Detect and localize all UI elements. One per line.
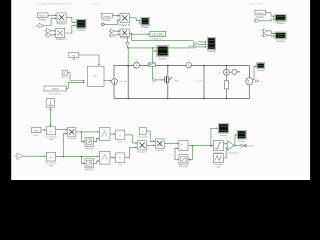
port arrow v [256,80,263,83]
comparator triangle [227,141,234,150]
block B2 [100,151,111,164]
black letterbox background [0,0,320,180]
port circle C2 [101,23,104,26]
label Product q [56,38,67,41]
svg-text:i dc .05: i dc .05 [119,81,127,83]
label Pmean [142,27,150,29]
mosfet switch PM [163,65,172,100]
triangular wave block [213,154,223,163]
memory block Memory1 [85,137,93,146]
svg-text:fa/dt: fa/dt [49,164,54,167]
product block Product4 [138,141,147,150]
voltmeter Vdc branch [224,65,230,81]
label mosfet [175,80,178,82]
breaker switch [148,63,155,66]
from tag Product (top-left) [38,13,49,18]
scope Scope7 [218,123,228,133]
product block Product dc [57,13,66,22]
ammeter Idc1 [134,62,140,68]
svg-text:PG: PG [94,76,98,78]
svg-text:Constant3: Constant3 [137,135,148,138]
wire add out [188,145,213,147]
label idc1 [135,60,139,62]
gain triangle T2b [109,33,116,37]
gain block G3 [116,153,125,163]
label Constant3 [137,135,148,138]
scope Scope1 [157,46,169,57]
wire product1 to Pmean display [130,18,141,24]
wires T2 to product2 [115,30,120,35]
wires B1a B1b to product q [52,30,56,36]
current source Idc [112,79,118,85]
label numeric display [152,38,164,40]
svg-text:Pulse: Pulse [34,130,40,132]
svg-text:Discrete: Discrete [61,76,70,79]
svg-text:Discrete PLL: Discrete PLL [49,92,62,95]
label Scope1 [159,59,168,61]
svg-text:Comparator: Comparator [228,151,239,154]
svg-text:Product d: Product d [120,37,131,40]
wires T4 to scope3 [268,31,275,37]
svg-text:Product: Product [257,12,264,15]
wire product2 to numeric display [129,33,149,35]
svg-text:Product: Product [39,19,47,22]
block Discrete PLL [44,86,66,91]
svg-text:Memory: Memory [85,147,94,150]
wire product dc to scope4 [66,17,76,23]
scope Scope5 [207,37,215,49]
wire from tag2 to product1 [112,14,120,16]
wire Fg to subsystem top [79,55,100,66]
feedback wire to memory6 [188,146,192,161]
label Product dc [57,23,68,26]
svg-text:Scope: Scope [239,141,246,143]
product block Product1 [120,14,130,23]
gain triangle T4b [262,33,268,37]
svg-text:Scope5: Scope5 [207,51,216,53]
gate drive triangle [153,78,163,81]
label under from tag 3 [256,17,264,19]
gain block G2 [116,130,125,140]
gain triangle down under product2 [125,36,129,48]
resistor R [225,81,229,100]
gain triangle T2a [109,29,116,32]
mux triangle c [194,45,198,48]
wire B2 to gain3 [110,157,115,159]
label Product3 [67,137,77,140]
source triangle 1 [15,153,23,160]
svg-text:PulseG: PulseG [256,17,264,19]
scope Scope8 [237,130,246,139]
wire branch down from product2 to mux line [131,34,132,41]
memory block Memory6 [179,155,188,165]
white model canvas [11,0,310,180]
wire memory1 to block B1 [93,137,99,141]
numeric display G-M [150,31,165,36]
svg-text:Scope2: Scope2 [277,23,286,25]
add block [179,141,188,151]
svg-text:G-M2: G-M2 [248,146,254,148]
label + dc [216,72,221,74]
label G3 [118,164,123,166]
label PLL [49,92,62,95]
block f(u) above chain [46,99,54,107]
wire circuit left rail [113,66,115,99]
label Scope4 [77,30,86,32]
wire Fg1 to discretized1 [41,129,46,131]
svg-text:Product4: Product4 [138,151,148,154]
constant block Constant3 [139,127,146,134]
svg-text:fa/dt: fa/dt [49,138,54,141]
from tag Product1 (top-middle) [101,13,112,18]
product block Product5 [155,139,164,148]
wire triangular to comparator [223,147,227,158]
gain triangle T4a [262,29,268,33]
svg-text:Product3: Product3 [67,137,77,140]
svg-text:Memory6: Memory6 [179,165,189,168]
wire branch to memory2 [81,157,84,165]
goto port G-M2 [241,144,254,148]
capacitor branch [127,65,129,100]
wire G1 to subsystem [67,73,84,82]
wire product3 to block B1 [76,131,99,133]
label Scope6 [257,70,265,72]
from tag Fg [69,52,79,57]
mux triangle b [194,42,198,45]
label Discretized1 [46,136,58,141]
svg-text:Product: Product [39,15,47,18]
svg-text:Product: Product [103,15,111,18]
gain triangle T3 [254,19,260,23]
from tag Fg1 [32,127,42,132]
label Product1 [119,24,131,27]
wire comparator out [234,145,240,147]
wire discretized1 to product3 [56,129,68,131]
svg-text:Memory2: Memory2 [85,169,95,172]
wire saturation to comparator [224,143,228,145]
label Scope8 [239,141,246,143]
subsystem block PG [88,66,105,86]
wire T1 to product dc lower input [44,17,57,25]
wire circuit bottom rail [114,98,249,100]
block B1 [100,128,111,141]
measurement circle V2 [229,69,240,74]
svg-text:Scope1: Scope1 [159,59,168,61]
svg-text:150kW: 150kW [52,89,60,91]
scope Scope3 [275,32,286,39]
svg-text:Scope3: Scope3 [277,41,286,43]
svg-text:PM: PM [175,80,178,82]
label f(u) [49,109,53,111]
wire triangle to discretized2 [23,155,46,157]
voltage source Vab [246,66,253,99]
wire product4 to product5 [147,144,156,146]
junction gate vertical [152,47,154,80]
svg-text:Scope7: Scope7 [220,135,228,137]
wire circuit top rail [114,65,249,67]
ammeter I2 [186,62,191,67]
svg-text:PV array boost converter model: PV array boost converter model [37,3,71,6]
svg-text:Product2: Product2 [155,149,165,152]
svg-text:+: + [181,142,183,146]
memory block Memory2 [85,159,93,168]
label G2 [118,142,123,144]
wire branch to scope8 [235,134,237,145]
label Scope7 [220,135,228,137]
wire PLL to subsystem [66,82,84,89]
scope Pmean [141,17,150,25]
wire Vab to scope6 [253,65,257,79]
long wire upper to mux [132,39,194,41]
gain triangle T1 [36,23,43,28]
label G1 [61,76,70,79]
svg-text:Scope4: Scope4 [77,30,86,32]
svg-text:Product d: Product d [57,23,68,26]
svg-text:Product d1: Product d1 [119,24,131,27]
gain triangle B1a [45,28,52,33]
label Product5 [155,149,165,152]
svg-text:Pmean: Pmean [142,27,150,29]
label Discretized2 [46,162,58,167]
wire branch to memory1 [81,132,84,143]
label Fg1 [34,135,39,137]
wire B1 to gain2 [110,133,115,135]
wire C2 to product1 lower input [104,19,120,24]
faint toolbar text remnants top [37,3,264,6]
value label i dc [119,81,127,83]
svg-text:discrete: discrete [92,3,101,6]
label under from tag [39,19,47,22]
wire constant3 to product5 [146,131,155,142]
label Saturation [213,151,224,154]
product block Product2 [120,29,129,36]
vertical wire from bottom row to product3 [63,133,68,158]
label under from tag 2 [103,19,111,22]
mux triangle a [190,46,193,49]
wire product5 to add [164,143,178,145]
wire memory2 to B2 [93,160,99,163]
from tag PulseGen (top-right) [255,10,266,15]
svg-text:Scope6: Scope6 [257,70,265,72]
junction to ammeter vertical [127,47,129,65]
label Scope2 [277,23,286,25]
label Comparator [228,151,239,154]
label Scope5 [207,51,216,53]
block Discretized df/dt 1 [46,127,55,135]
wire f(u) down to discretized1 [49,107,51,127]
wire gain2 to product4 [125,135,138,144]
label Fg [72,59,75,61]
wire T3 to scope2 [260,18,275,21]
scope Scope6 [257,63,265,69]
wire discretized2 to B2 [56,156,100,158]
label i2 [188,60,190,62]
svg-text:Product q: Product q [56,38,67,41]
label Product4 [138,151,148,154]
label Product2 [120,37,131,40]
gain triangle B1b [45,33,52,37]
wires mux to scope5 [198,41,207,48]
wire product q to scope4 [65,24,77,33]
svg-text:255 1380: 255 1380 [152,32,163,36]
product block Product q [56,28,65,37]
wire tag3 to scope2 [266,13,275,18]
middle branch rail [203,65,205,100]
svg-text:wave: wave [216,166,222,168]
saturation block [213,141,223,151]
product block Product3 [68,128,76,137]
label Memory6 [179,165,189,168]
wire memory6 to add [175,147,179,159]
block Discretized df/dt 2 [46,152,55,161]
label v dc [198,80,203,82]
wire into Scope1 [153,50,157,52]
svg-text:Scope viewer: Scope viewer [249,3,264,6]
svg-text:Product: Product [103,19,111,22]
wire from tag to product dc [48,14,57,16]
label Memory2 [85,169,95,172]
svg-text:+: + [181,147,183,151]
wire branch to scope7 [211,127,218,145]
wire gain3 to product4 lower [125,146,138,157]
scope Scope2 [275,14,286,21]
long wire lower to mux [127,47,190,49]
wire subsystem to current source [104,79,112,81]
label Scope3 [277,41,286,43]
label Memory1 [85,147,94,150]
block Discrete G1 [62,70,67,75]
scope Scope4 [76,19,86,28]
label Triangular wave [214,163,224,168]
